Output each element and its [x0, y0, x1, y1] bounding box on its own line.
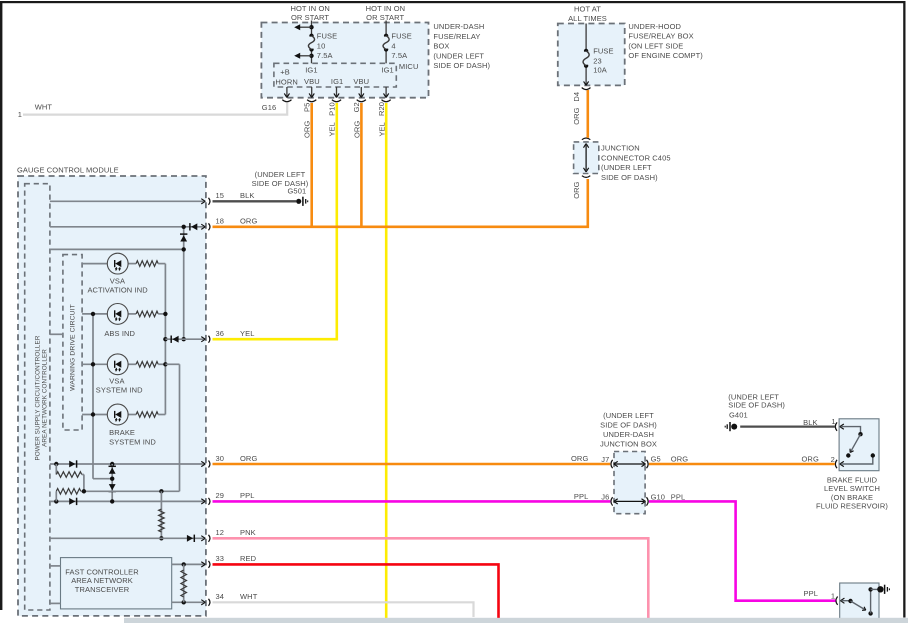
- svg-text:+B: +B: [280, 68, 290, 77]
- svg-text:HOT IN ON: HOT IN ON: [366, 4, 406, 13]
- svg-text:ORG: ORG: [240, 454, 257, 463]
- svg-text:7.5A: 7.5A: [391, 51, 407, 60]
- svg-text:2: 2: [831, 455, 835, 464]
- svg-text:SIDE OF DASH): SIDE OF DASH): [728, 400, 785, 409]
- svg-text:ORG: ORG: [303, 121, 312, 138]
- svg-text:SIDE OF DASH): SIDE OF DASH): [433, 61, 490, 70]
- svg-text:OF ENGINE COMPT): OF ENGINE COMPT): [628, 51, 703, 60]
- svg-text:18: 18: [216, 217, 225, 226]
- svg-text:FUSE: FUSE: [317, 32, 337, 41]
- svg-text:SIDE OF DASH): SIDE OF DASH): [601, 173, 658, 182]
- svg-text:P10: P10: [327, 102, 336, 116]
- svg-text:OR START: OR START: [366, 13, 404, 22]
- svg-text:PNK: PNK: [240, 528, 256, 537]
- svg-text:FLUID RESERVOIR): FLUID RESERVOIR): [816, 502, 888, 511]
- svg-text:34: 34: [216, 592, 225, 601]
- svg-text:OR START: OR START: [291, 13, 329, 22]
- svg-text:ORG: ORG: [572, 181, 581, 198]
- svg-text:ABS IND: ABS IND: [104, 329, 135, 338]
- svg-text:D4: D4: [572, 92, 581, 102]
- svg-text:LEVEL SWITCH: LEVEL SWITCH: [824, 484, 880, 493]
- svg-text:10: 10: [317, 42, 326, 51]
- svg-text:15: 15: [216, 191, 225, 200]
- svg-text:1: 1: [831, 417, 835, 426]
- svg-text:UNDER-DASH: UNDER-DASH: [603, 430, 654, 439]
- svg-text:ORG: ORG: [352, 121, 361, 138]
- svg-text:JUNCTION: JUNCTION: [601, 144, 640, 153]
- svg-text:VBU: VBU: [304, 77, 320, 86]
- svg-text:G2: G2: [352, 102, 361, 112]
- svg-text:12: 12: [216, 528, 225, 537]
- svg-text:30: 30: [216, 454, 225, 463]
- svg-text:SIDE OF DASH): SIDE OF DASH): [600, 421, 657, 430]
- svg-text:7.5A: 7.5A: [317, 51, 333, 60]
- svg-text:IG1: IG1: [381, 66, 393, 75]
- svg-text:BRAKE FLUID: BRAKE FLUID: [827, 475, 878, 484]
- svg-text:R20: R20: [377, 102, 386, 116]
- svg-text:UNDER-HOOD: UNDER-HOOD: [628, 22, 681, 31]
- svg-text:36: 36: [216, 329, 225, 338]
- svg-text:IG1: IG1: [305, 66, 317, 75]
- svg-text:ACTIVATION IND: ACTIVATION IND: [87, 285, 148, 294]
- svg-text:G16: G16: [262, 103, 276, 112]
- svg-text:P5: P5: [302, 103, 311, 112]
- svg-text:IG1: IG1: [331, 77, 343, 86]
- svg-text:FAST CONTROLLER: FAST CONTROLLER: [65, 567, 139, 576]
- svg-text:WHT: WHT: [240, 592, 258, 601]
- svg-text:WARNING DRIVE CIRCUIT: WARNING DRIVE CIRCUIT: [70, 304, 77, 391]
- svg-text:10A: 10A: [593, 66, 607, 75]
- svg-text:VSA: VSA: [110, 276, 125, 285]
- svg-text:YEL: YEL: [240, 329, 254, 338]
- svg-text:TRANSCEIVER: TRANSCEIVER: [75, 585, 130, 594]
- svg-text:BRAKE: BRAKE: [109, 428, 135, 437]
- svg-text:VBU: VBU: [353, 77, 369, 86]
- svg-text:FUSE: FUSE: [391, 32, 411, 41]
- svg-text:ALL TIMES: ALL TIMES: [568, 14, 607, 23]
- svg-text:(UNDER LEFT: (UNDER LEFT: [603, 411, 654, 420]
- svg-text:JUNCTION BOX: JUNCTION BOX: [600, 440, 657, 449]
- svg-text:1: 1: [831, 592, 835, 601]
- svg-text:POWER SUPPLY CIRCUIT/CONTROLLE: POWER SUPPLY CIRCUIT/CONTROLLER: [35, 335, 42, 460]
- svg-text:G501: G501: [288, 187, 307, 196]
- svg-text:BLK: BLK: [240, 191, 254, 200]
- svg-text:23: 23: [593, 57, 602, 66]
- svg-text:MICU: MICU: [399, 62, 419, 71]
- svg-text:ORG: ORG: [671, 455, 688, 464]
- svg-text:AREA NETWORK CONTROLLER: AREA NETWORK CONTROLLER: [42, 349, 49, 447]
- svg-text:29: 29: [216, 491, 225, 500]
- svg-text:UNDER-DASH: UNDER-DASH: [433, 22, 484, 31]
- svg-text:(UNDER LEFT: (UNDER LEFT: [433, 51, 484, 60]
- svg-text:FUSE: FUSE: [593, 47, 613, 56]
- svg-text:(UNDER LEFT: (UNDER LEFT: [255, 170, 306, 179]
- svg-text:ORG: ORG: [240, 217, 257, 226]
- svg-text:RED: RED: [240, 554, 257, 563]
- svg-text:GAUGE CONTROL MODULE: GAUGE CONTROL MODULE: [17, 165, 119, 174]
- svg-text:FUSE/RELAY BOX: FUSE/RELAY BOX: [628, 32, 693, 41]
- svg-text:J7: J7: [601, 455, 609, 464]
- svg-text:PPL: PPL: [804, 589, 818, 598]
- svg-text:ORG: ORG: [802, 454, 819, 463]
- svg-text:33: 33: [216, 554, 225, 563]
- svg-text:HOT AT: HOT AT: [574, 4, 601, 13]
- svg-text:VSA: VSA: [109, 377, 124, 386]
- svg-text:PPL: PPL: [574, 492, 588, 501]
- svg-text:(UNDER LEFT: (UNDER LEFT: [601, 163, 652, 172]
- svg-text:SYSTEM IND: SYSTEM IND: [109, 438, 156, 447]
- svg-text:PPL: PPL: [240, 491, 254, 500]
- svg-text:BOX: BOX: [433, 42, 449, 51]
- svg-text:G401: G401: [729, 411, 748, 420]
- svg-text:SYSTEM IND: SYSTEM IND: [96, 386, 143, 395]
- svg-text:(ON BRAKE: (ON BRAKE: [831, 493, 873, 502]
- svg-text:FUSE/RELAY: FUSE/RELAY: [433, 32, 480, 41]
- svg-text:4: 4: [391, 42, 395, 51]
- svg-text:CONNECTOR C405: CONNECTOR C405: [601, 153, 671, 162]
- svg-text:G5: G5: [651, 455, 661, 464]
- svg-text:AREA NETWORK: AREA NETWORK: [71, 576, 133, 585]
- svg-text:HOT IN ON: HOT IN ON: [290, 4, 330, 13]
- svg-text:WHT: WHT: [35, 102, 53, 111]
- svg-text:ORG: ORG: [572, 107, 581, 124]
- svg-text:1: 1: [18, 110, 22, 119]
- svg-text:ORG: ORG: [571, 454, 588, 463]
- svg-text:HORN: HORN: [275, 77, 297, 86]
- svg-text:(ON LEFT SIDE: (ON LEFT SIDE: [628, 41, 683, 50]
- svg-text:YEL: YEL: [328, 122, 337, 136]
